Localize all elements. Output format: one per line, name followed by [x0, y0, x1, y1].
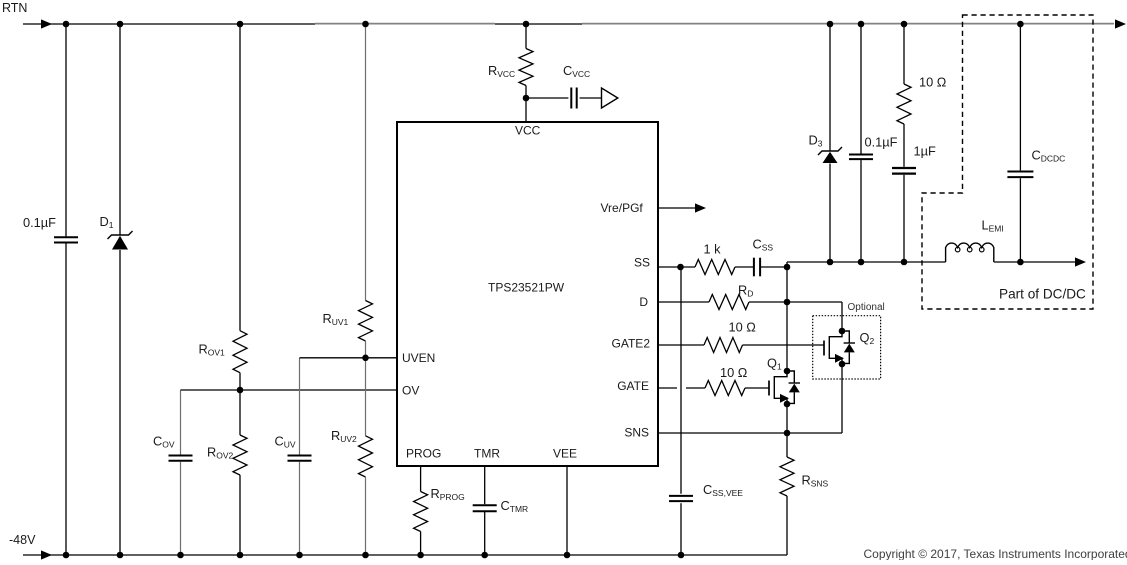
svg-text:GATE2: GATE2 — [612, 337, 651, 351]
svg-text:TPS23521PW: TPS23521PW — [488, 281, 565, 295]
svg-text:Part of DC/DC: Part of DC/DC — [999, 287, 1086, 302]
svg-text:Vre/PGf: Vre/PGf — [601, 201, 644, 215]
svg-text:UVEN: UVEN — [402, 351, 435, 365]
svg-text:PROG: PROG — [406, 447, 441, 461]
svg-text:Optional: Optional — [848, 302, 885, 313]
svg-text:1 k: 1 k — [704, 242, 722, 257]
svg-text:10 Ω: 10 Ω — [919, 75, 947, 90]
svg-text:0.1µF: 0.1µF — [23, 215, 56, 230]
svg-text:0.1µF: 0.1µF — [865, 135, 898, 150]
svg-text:-48V: -48V — [9, 533, 36, 547]
svg-text:10 Ω: 10 Ω — [720, 365, 748, 380]
svg-text:Copyright © 2017, Texas Instru: Copyright © 2017, Texas Instruments Inco… — [864, 547, 1127, 560]
svg-text:1µF: 1µF — [914, 144, 936, 159]
svg-text:10 Ω: 10 Ω — [729, 320, 757, 335]
svg-text:SS: SS — [634, 256, 650, 270]
svg-text:OV: OV — [402, 384, 419, 398]
svg-text:SNS: SNS — [624, 426, 649, 440]
svg-text:VEE: VEE — [553, 447, 577, 461]
svg-text:RTN: RTN — [2, 1, 27, 15]
svg-text:D: D — [639, 295, 648, 309]
svg-text:GATE: GATE — [617, 379, 649, 393]
svg-text:TMR: TMR — [474, 447, 500, 461]
svg-text:VCC: VCC — [515, 124, 541, 138]
